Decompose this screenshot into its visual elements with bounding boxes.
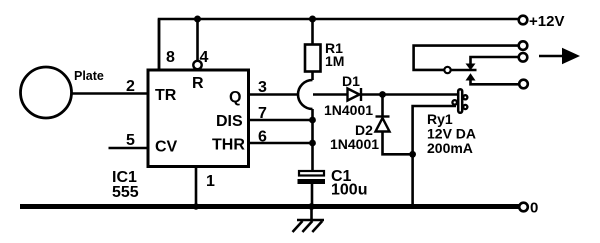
svg-text:DIS: DIS (216, 113, 243, 130)
svg-text:Plate: Plate (74, 69, 104, 83)
0V terminal (519, 203, 528, 212)
junction dot C1 on rail (308, 203, 315, 210)
wire crossover hop arc (298, 80, 313, 109)
junction dot pin1 on rail (193, 203, 199, 209)
svg-text:Q: Q (229, 89, 241, 106)
resistor R1 (305, 45, 321, 72)
contact terminal middle (519, 53, 528, 62)
capacitor C1 top plate (299, 171, 324, 176)
ground stub wire (310, 207, 313, 221)
wire pin 1 to 0V rail (195, 166, 198, 206)
NC contact arrow and wire to middle terminal (466, 57, 519, 70)
junction dot R1 on rail (309, 16, 316, 23)
ground symbol (293, 220, 325, 232)
svg-text:100u: 100u (331, 182, 367, 199)
top +12V supply rail (159, 19, 518, 70)
contact arm wire (451, 69, 477, 72)
touch plate sensor (21, 67, 72, 118)
wire R1 bottom to hop top (311, 72, 314, 81)
svg-text:5: 5 (126, 132, 135, 149)
svg-text:555: 555 (112, 184, 139, 201)
svg-text:+12V: +12V (529, 13, 564, 30)
svg-text:THR: THR (212, 137, 245, 154)
svg-text:1: 1 (206, 173, 215, 190)
junction dot pin4 on rail (194, 16, 201, 23)
svg-text:3: 3 (258, 79, 267, 96)
wire C1 bottom to rail (311, 184, 314, 207)
svg-text:8: 8 (166, 49, 175, 66)
svg-text:2: 2 (126, 78, 135, 95)
wire hop to D1 anode (313, 93, 348, 96)
+12V terminal (519, 16, 528, 25)
wire pin 4 to rail (196, 19, 199, 61)
svg-text:6: 6 (258, 129, 267, 146)
svg-text:0: 0 (530, 200, 538, 217)
capacitor C1 bottom plate (298, 179, 326, 184)
relay contact common wire (414, 46, 518, 70)
diode D2 (376, 117, 390, 132)
wire rail to R1 top with junction (311, 19, 314, 45)
wire pin 5 CV stub (109, 147, 149, 150)
op IC1 555 body (148, 70, 249, 167)
svg-text:R: R (192, 75, 204, 92)
wire vertical R1 to C1 (311, 109, 314, 171)
wire Q pin 3 to hop (249, 93, 300, 96)
wire DIS pin 7 (249, 119, 313, 122)
contact pivot circle (444, 67, 450, 73)
svg-text:1N4001: 1N4001 (330, 136, 379, 152)
actuation arrow (539, 48, 580, 64)
wire coil bottom return to node B (413, 106, 456, 154)
wire D2 anode to node B (383, 132, 413, 155)
svg-text:1M: 1M (325, 53, 344, 69)
svg-text:TR: TR (155, 87, 177, 104)
wire node B to 0V rail (411, 154, 414, 206)
wire THR pin 6 (249, 142, 313, 145)
bottom 0V rail (20, 204, 519, 209)
svg-text:1N4001: 1N4001 (324, 102, 373, 118)
reset inversion bubble pin 4 (193, 61, 201, 69)
diode D1 (348, 88, 362, 101)
relay coil Ry1 (452, 89, 467, 113)
svg-text:CV: CV (155, 139, 178, 156)
wire D1 cathode to relay coil (361, 93, 458, 96)
svg-text:4: 4 (200, 49, 209, 66)
junction dot node D1/D2/coil (379, 91, 386, 98)
wire D2 cathode up to node (381, 95, 384, 116)
wire pin 8 to rail (158, 19, 161, 70)
wire plate to pin 2 TR (71, 92, 148, 95)
junction dot node B (409, 151, 416, 158)
contact terminal top (519, 41, 528, 50)
contact terminal bottom (519, 80, 528, 89)
junction dot DIS node (309, 117, 316, 124)
junction dot THR node (309, 140, 316, 147)
svg-text:200mA: 200mA (427, 140, 473, 156)
NO contact arrow and wire to bottom terminal (466, 73, 519, 84)
svg-text:D1: D1 (342, 73, 360, 89)
svg-text:7: 7 (258, 105, 267, 122)
